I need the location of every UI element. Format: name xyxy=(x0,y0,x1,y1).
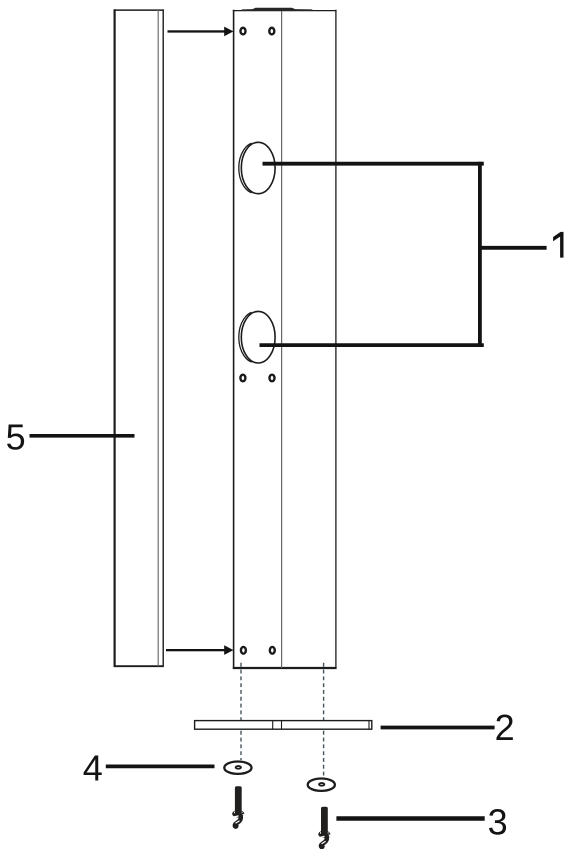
base plate (item 2) xyxy=(195,721,372,730)
washer under right screw xyxy=(308,779,335,791)
post top dark cap band xyxy=(242,8,313,11)
washer (item 4) xyxy=(224,762,251,774)
glass panel inner edge line xyxy=(157,10,159,666)
svg-text:3: 3 xyxy=(488,802,508,843)
top screw hole right xyxy=(269,28,274,35)
top screw hole left xyxy=(241,28,246,35)
post column outline xyxy=(233,10,337,669)
leader line for label 4 xyxy=(106,765,215,769)
top arrow pointing at post xyxy=(168,27,234,37)
right screw xyxy=(318,807,330,849)
svg-text:5: 5 xyxy=(6,417,26,458)
leader line for label 5 xyxy=(30,434,135,438)
post front/side divider edge xyxy=(281,11,283,668)
dashed guide line right xyxy=(323,663,325,778)
bottom screw hole right xyxy=(270,647,275,654)
svg-text:4: 4 xyxy=(83,747,103,788)
leader line for label 2 xyxy=(381,726,495,730)
leader bracket for label 1 xyxy=(260,162,547,347)
leader line for label 3 xyxy=(336,816,484,821)
left screw xyxy=(232,786,244,828)
svg-text:2: 2 xyxy=(495,707,515,748)
mid screw hole left xyxy=(240,375,245,382)
dashed guide line left xyxy=(240,663,242,760)
bottom screw hole left xyxy=(241,647,246,654)
oval hole 1 xyxy=(239,142,275,193)
glass panel (item 5) outline xyxy=(114,9,164,667)
mid screw hole right xyxy=(270,375,275,382)
bottom arrow pointing at post xyxy=(166,645,233,655)
oval hole 2 xyxy=(239,311,275,363)
label 1 xyxy=(553,232,563,258)
